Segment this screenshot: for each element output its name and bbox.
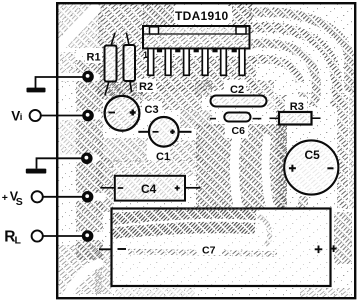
svg-text:C3: C3 [145,104,159,116]
svg-text:L: L [15,235,22,247]
svg-text:1: 1 [143,50,148,60]
svg-text:C7: C7 [202,245,216,257]
svg-text:C1: C1 [156,151,170,163]
svg-text:C2: C2 [230,84,244,96]
svg-text:R1: R1 [87,52,101,64]
svg-text:+: + [2,192,8,204]
svg-text:C4: C4 [141,182,157,196]
svg-text:R3: R3 [290,101,304,113]
svg-text:C6: C6 [232,125,246,137]
svg-text:R2: R2 [139,81,153,93]
svg-text:i: i [20,112,23,123]
svg-text:TDA1910: TDA1910 [175,9,228,23]
svg-text:C5: C5 [305,148,321,162]
svg-text:S: S [16,196,23,208]
